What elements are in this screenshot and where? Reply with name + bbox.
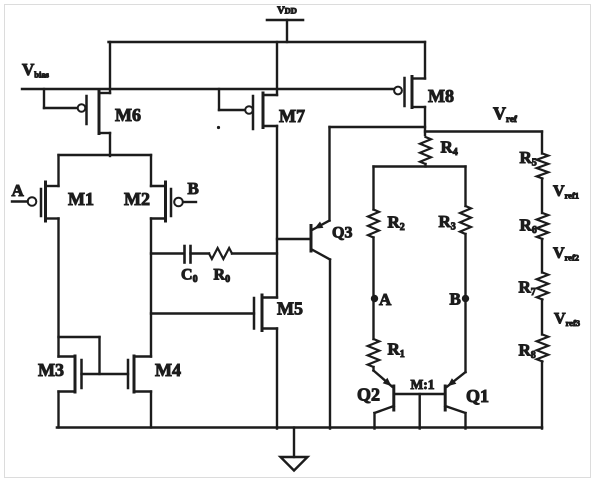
svg-text:M3: M3 xyxy=(38,360,64,380)
svg-text:Q2: Q2 xyxy=(357,385,380,405)
svg-text:M:1: M:1 xyxy=(411,377,435,392)
svg-text:M5: M5 xyxy=(277,299,303,319)
svg-text:B: B xyxy=(188,179,199,198)
svg-text:M7: M7 xyxy=(279,106,305,126)
svg-text:VDD: VDD xyxy=(277,6,297,17)
svg-text:Q3: Q3 xyxy=(332,225,352,242)
svg-text:A: A xyxy=(12,181,25,200)
svg-text:Q1: Q1 xyxy=(466,386,489,406)
svg-text:A: A xyxy=(379,290,392,309)
svg-text:M6: M6 xyxy=(115,105,141,125)
svg-text:M2: M2 xyxy=(124,189,150,209)
svg-text:B: B xyxy=(450,290,461,309)
svg-text:M1: M1 xyxy=(68,189,94,209)
svg-text:M4: M4 xyxy=(155,360,181,380)
svg-text:M8: M8 xyxy=(428,86,454,106)
